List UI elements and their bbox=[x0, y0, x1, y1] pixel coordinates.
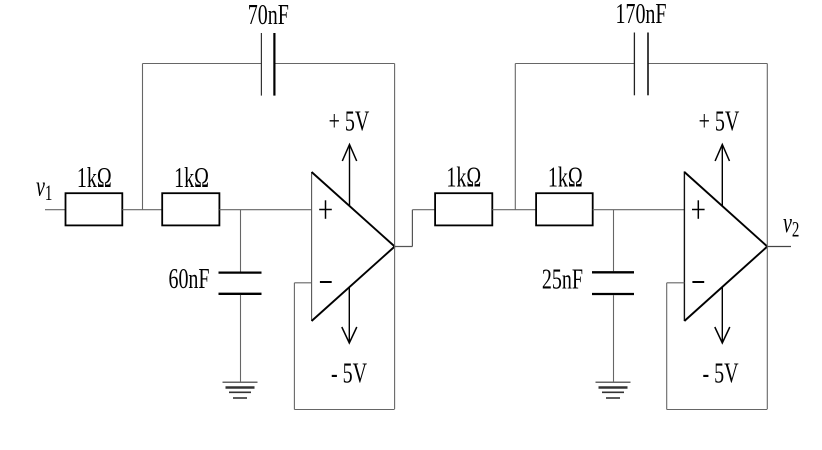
svg-text:1kΩ: 1kΩ bbox=[548, 162, 583, 193]
svg-text:- 5V: - 5V bbox=[702, 358, 738, 389]
svg-text:+ 5V: + 5V bbox=[699, 106, 740, 137]
svg-text:1kΩ: 1kΩ bbox=[446, 162, 481, 193]
svg-text:25nF: 25nF bbox=[542, 264, 583, 295]
svg-text:60nF: 60nF bbox=[168, 264, 209, 295]
svg-text:170nF: 170nF bbox=[615, 0, 666, 30]
svg-text:1kΩ: 1kΩ bbox=[174, 163, 209, 194]
svg-text:- 5V: - 5V bbox=[331, 358, 367, 389]
svg-text:70nF: 70nF bbox=[248, 0, 289, 31]
svg-text:+ 5V: + 5V bbox=[329, 106, 370, 137]
svg-text:1kΩ: 1kΩ bbox=[77, 163, 112, 194]
